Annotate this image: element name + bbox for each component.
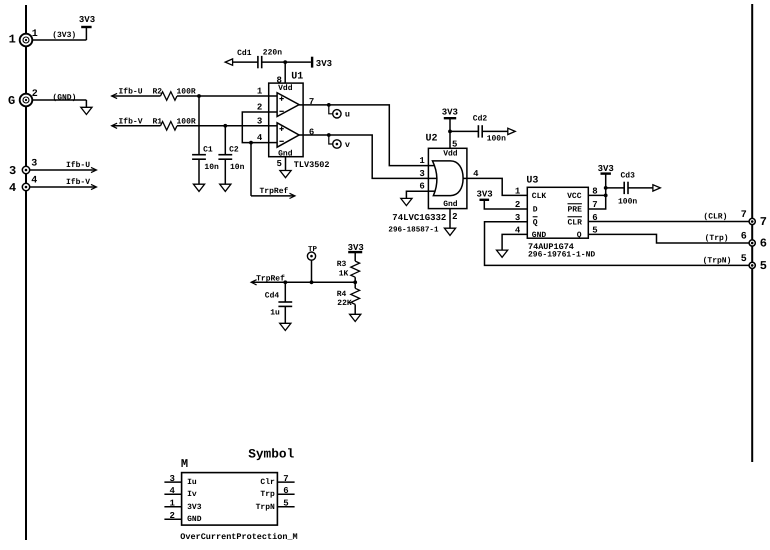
svg-text:6: 6 (741, 231, 747, 242)
svg-text:3V3: 3V3 (348, 243, 364, 253)
svg-text:7: 7 (760, 215, 767, 229)
svg-text:GND: GND (187, 515, 202, 524)
svg-text:5: 5 (741, 254, 747, 265)
svg-text:3: 3 (31, 159, 37, 170)
svg-text:Cd2: Cd2 (473, 115, 488, 124)
svg-text:100n: 100n (487, 134, 506, 143)
svg-text:3: 3 (169, 474, 174, 484)
svg-text:4: 4 (9, 181, 16, 195)
svg-text:R2: R2 (153, 88, 163, 97)
svg-text:3: 3 (257, 116, 262, 126)
svg-text:OverCurrentProtection_M: OverCurrentProtection_M (180, 532, 297, 542)
svg-text:6: 6 (309, 127, 314, 137)
svg-text:1: 1 (257, 87, 263, 97)
svg-text:CLR: CLR (568, 219, 583, 228)
svg-text:TrpRef: TrpRef (260, 187, 289, 196)
svg-text:TrpRef: TrpRef (256, 274, 285, 283)
svg-text:Cd3: Cd3 (621, 172, 636, 181)
svg-text:3: 3 (419, 169, 424, 179)
svg-text:6: 6 (760, 237, 767, 251)
svg-text:G: G (8, 94, 15, 108)
svg-text:(3V3): (3V3) (52, 31, 76, 40)
svg-text:R3: R3 (337, 260, 347, 269)
svg-text:74LVC1G332: 74LVC1G332 (392, 213, 446, 223)
svg-text:C2: C2 (229, 146, 239, 155)
svg-text:CLK: CLK (532, 192, 547, 201)
svg-text:U3: U3 (526, 176, 538, 187)
svg-text:2: 2 (257, 103, 262, 113)
svg-text:Q: Q (577, 231, 582, 240)
svg-text:5: 5 (276, 159, 281, 169)
svg-text:3: 3 (9, 164, 16, 178)
svg-text:TrpN: TrpN (256, 503, 275, 512)
svg-text:2: 2 (32, 89, 38, 100)
svg-text:3V3: 3V3 (476, 189, 492, 199)
svg-text:VCC: VCC (567, 192, 582, 201)
svg-text:R1: R1 (153, 117, 163, 126)
svg-text:(GND): (GND) (52, 94, 76, 103)
svg-text:6: 6 (419, 182, 424, 192)
svg-text:Clr: Clr (260, 478, 275, 487)
svg-text:5: 5 (452, 140, 457, 150)
svg-text:Ifb-V: Ifb-V (66, 178, 90, 187)
svg-text:Gnd: Gnd (443, 200, 458, 209)
svg-text:Q: Q (533, 219, 538, 228)
svg-text:4: 4 (257, 133, 263, 143)
svg-text:1: 1 (9, 33, 16, 47)
svg-text:Trp: Trp (260, 490, 275, 499)
svg-text:5: 5 (760, 259, 767, 273)
svg-text:PRE: PRE (568, 206, 583, 215)
svg-text:Ifb-V: Ifb-V (119, 117, 143, 126)
svg-text:10n: 10n (204, 163, 219, 172)
svg-text:1: 1 (32, 29, 38, 40)
svg-text:(TrpN): (TrpN) (703, 257, 732, 266)
svg-text:1: 1 (169, 499, 175, 509)
svg-text:Vdd: Vdd (443, 150, 458, 159)
svg-text:(Trp): (Trp) (705, 234, 729, 243)
svg-text:4: 4 (473, 169, 479, 179)
svg-text:C1: C1 (203, 146, 213, 155)
svg-text:296-18587-1: 296-18587-1 (388, 226, 439, 235)
svg-text:Cd1: Cd1 (237, 49, 252, 58)
svg-text:100n: 100n (618, 197, 637, 206)
svg-text:3V3: 3V3 (316, 59, 332, 69)
svg-text:Iu: Iu (187, 478, 197, 487)
svg-text:Cd4: Cd4 (265, 292, 280, 301)
svg-text:U2: U2 (426, 134, 438, 145)
svg-text:7: 7 (741, 210, 747, 221)
svg-text:Iv: Iv (187, 490, 197, 499)
svg-text:1: 1 (419, 156, 425, 166)
svg-text:3V3: 3V3 (187, 503, 202, 512)
svg-text:TLV3502: TLV3502 (294, 160, 330, 170)
svg-text:100R: 100R (177, 88, 196, 97)
svg-text:100R: 100R (177, 117, 196, 126)
svg-text:Ifb-U: Ifb-U (119, 88, 143, 97)
svg-text:1u: 1u (270, 309, 280, 318)
svg-text:R4: R4 (337, 290, 347, 299)
svg-text:1: 1 (515, 186, 521, 196)
svg-text:Symbol: Symbol (248, 447, 294, 462)
svg-text:3V3: 3V3 (442, 107, 458, 117)
svg-text:Vdd: Vdd (278, 84, 293, 93)
svg-text:7: 7 (283, 474, 288, 484)
svg-text:2: 2 (169, 511, 174, 521)
svg-text:U1: U1 (291, 72, 303, 83)
svg-text:22K: 22K (337, 299, 352, 308)
svg-text:6: 6 (283, 486, 288, 496)
svg-text:4: 4 (169, 486, 175, 496)
svg-text:5: 5 (283, 499, 288, 509)
svg-text:3V3: 3V3 (79, 15, 95, 25)
svg-text:4: 4 (31, 176, 37, 187)
svg-text:220n: 220n (263, 49, 282, 58)
svg-text:Ifb-U: Ifb-U (66, 161, 90, 170)
svg-text:v: v (345, 140, 350, 150)
svg-text:1K: 1K (339, 269, 349, 278)
svg-text:10n: 10n (230, 163, 245, 172)
svg-text:D: D (533, 206, 538, 215)
svg-text:M: M (181, 457, 188, 471)
svg-text:3V3: 3V3 (598, 164, 614, 174)
svg-text:(CLR): (CLR) (703, 213, 727, 222)
svg-text:2: 2 (452, 212, 457, 222)
svg-text:u: u (345, 110, 350, 120)
svg-text:GND: GND (532, 231, 547, 240)
svg-text:TP: TP (308, 246, 318, 254)
svg-text:7: 7 (309, 97, 314, 107)
svg-text:296-19761-1-ND: 296-19761-1-ND (528, 250, 595, 259)
